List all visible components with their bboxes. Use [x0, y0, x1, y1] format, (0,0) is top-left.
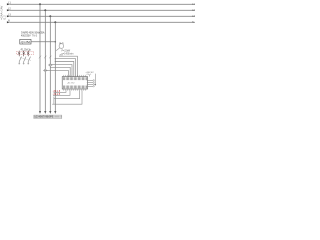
svg-text:n=1450/min: n=1450/min [62, 53, 75, 55]
breaker blade 1 [19, 57, 21, 62]
box right stub 3 [87, 83, 93, 85]
PE drop wire right of box [94, 74, 96, 85]
breaker trip dashed box (red) [17, 51, 34, 54]
wire B4 from box bottom [52, 90, 82, 104]
bus L1 left arrow [7, 3, 10, 5]
connector plug on V3 [48, 64, 52, 67]
bus N [10, 21, 196, 23]
breaker pole 2 bottom lead [23, 62, 25, 65]
device box bottom pin ticks [64, 89, 86, 91]
box right stub 2 [87, 81, 93, 83]
wire V3 (L3 drop) [49, 16, 51, 111]
breaker pole 3 bottom lead [27, 62, 29, 65]
node on V4 at label wire [55, 41, 57, 43]
wire B2 from box bottom [53, 90, 70, 95]
svg-text:-F1 25A 3p: -F1 25A 3p [20, 48, 32, 51]
device box top pin ticks [64, 75, 86, 77]
bus L3 [10, 15, 196, 17]
terminal arrow 4 [54, 111, 56, 114]
node tap N [54, 21, 56, 23]
svg-text:3/N/PE 400V 50Hz 35A: 3/N/PE 400V 50Hz 35A [21, 32, 45, 35]
svg-text:TN-S: TN-S [32, 36, 38, 38]
wire W6 staircase [45, 70, 68, 76]
wire B3 from box bottom [54, 90, 80, 98]
wire V1 (L1 drop) [39, 4, 41, 111]
wire W4 staircase [50, 65, 72, 77]
net label column (rotated) [0, 6, 7, 20]
wire B left junction [53, 97, 55, 105]
breaker pole 1 bottom lead [18, 62, 20, 65]
bus N left arrow [7, 21, 10, 23]
svg-text:N: N [192, 21, 194, 24]
auxiliary drop wire [89, 74, 91, 76]
node tap L3 [49, 15, 51, 17]
terminal arrow 2 [44, 111, 46, 114]
svg-text:400/230V: 400/230V [21, 36, 31, 38]
wire V4 (N drop) [54, 22, 56, 111]
svg-text:-Q1 25A: -Q1 25A [20, 40, 30, 44]
bus L3 left arrow [7, 15, 10, 17]
wire B1 from box bottom [54, 90, 67, 92]
svg-text:/1.2: /1.2 [3, 15, 7, 20]
label box -Q1 [20, 39, 31, 44]
breaker pole 2 contact [23, 51, 25, 57]
node tap L1 [39, 3, 41, 5]
bus L2 left arrow [7, 9, 10, 11]
wire W2 staircase [55, 59, 75, 77]
breaker pole 1 contact [18, 51, 20, 57]
breaker blade 3 [28, 57, 30, 62]
wire W5 staircase [50, 67, 70, 76]
wire V2 (L2 drop) [44, 10, 46, 111]
pole lead end chevrons [18, 63, 29, 64]
node tap L2 [44, 9, 46, 11]
box right stub 1 [87, 79, 93, 81]
bus L2 [10, 9, 196, 11]
node W3 on V4 [55, 61, 56, 62]
terminal strip bar [34, 115, 62, 118]
svg-text:N: N [8, 20, 10, 23]
transducer B1 (circle with arcs) [56, 43, 64, 51]
terminal arrow 3 [49, 111, 51, 114]
device box top inner pin row [63, 77, 86, 80]
box right stub 4 [87, 85, 93, 87]
wire W3 staircase [55, 62, 74, 77]
wire from label box to V4 [31, 41, 55, 43]
device box A1 [62, 77, 87, 89]
connector plug on V2 [43, 69, 47, 72]
wire W1 staircase [59, 56, 77, 76]
svg-text:-A1 XS2: -A1 XS2 [67, 82, 75, 85]
wire slash marks on verticals [39, 56, 52, 59]
breaker linkage (dashed) [20, 58, 31, 61]
breaker pole 3 contact [27, 51, 29, 57]
bus L1 [10, 3, 196, 5]
terminal arrow 1 [39, 111, 41, 114]
device box bottom inner pin row [63, 86, 86, 89]
breaker blade 2 [24, 57, 26, 62]
node W2 on V4 [55, 58, 56, 59]
